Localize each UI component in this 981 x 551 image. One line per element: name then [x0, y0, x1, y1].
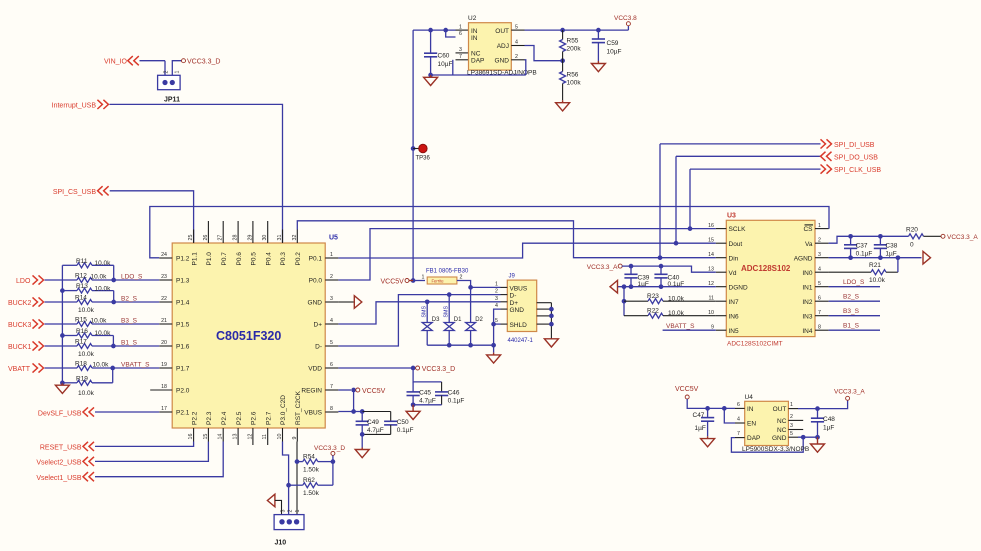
svg-text:31: 31: [277, 235, 283, 241]
svg-text:VCC3.3_D: VCC3.3_D: [422, 366, 455, 373]
wire VCC3.3_A rail to Vd: [622, 266, 716, 272]
U5 pin 20 P1.6: [159, 345, 172, 347]
wire FB1 out to VBUS: [457, 281, 471, 288]
svg-text:10.0k: 10.0k: [869, 277, 886, 284]
svg-text:R14: R14: [75, 295, 87, 302]
svg-text:11: 11: [262, 434, 268, 440]
U5 pin 28 P0.6: [237, 221, 239, 243]
capacitor C45: [412, 382, 414, 392]
svg-text:22: 22: [161, 296, 167, 302]
svg-text:6: 6: [459, 31, 462, 37]
wire AGND row: [829, 257, 922, 259]
net label B3_S at IN3: [829, 315, 880, 317]
svg-text:2: 2: [495, 289, 498, 295]
junction U2 pin6 tap: [443, 28, 448, 33]
svg-text:VCC3.8: VCC3.8: [614, 15, 637, 22]
svg-text:B1_S: B1_S: [843, 323, 860, 330]
svg-text:R17: R17: [75, 339, 87, 346]
wire J9 SHLD pin5: [494, 323, 501, 325]
ground at ladder bus bottom: [60, 380, 65, 385]
U5 pin 2 P0.0: [325, 279, 338, 281]
U5 pin 27 P0.7: [222, 221, 224, 243]
power port VCC5V at REGIN: [356, 388, 360, 392]
net SPI_DO_USB: [676, 155, 821, 157]
svg-text:U2: U2: [468, 15, 477, 22]
power port VCC3.3_A at U4: [846, 396, 850, 400]
U4 pin stubs right: [788, 408, 798, 410]
svg-text:BUCK2: BUCK2: [8, 300, 31, 307]
svg-text:9: 9: [292, 437, 298, 440]
svg-text:SPI_DI_USB: SPI_DI_USB: [834, 142, 875, 149]
junction C59 top: [596, 28, 601, 33]
svg-text:C49: C49: [367, 419, 379, 426]
svg-text:1: 1: [295, 510, 301, 513]
U3 pin 16 SCLK: [716, 228, 727, 230]
svg-text:440247-1: 440247-1: [508, 338, 534, 344]
resistor R23: [624, 300, 648, 302]
svg-text:CS: CS: [803, 226, 813, 233]
U5 pin 29 P0.5: [252, 221, 254, 243]
junction C60 bottom: [428, 73, 433, 78]
wire SPI_CLK vertical: [689, 169, 691, 229]
svg-text:VCC5V: VCC5V: [675, 386, 699, 393]
wire R11 to LDO_S node: [113, 265, 115, 280]
svg-text:15: 15: [708, 237, 714, 243]
svg-text:R62: R62: [303, 477, 315, 484]
svg-text:5: 5: [790, 431, 793, 437]
svg-text:19: 19: [161, 362, 167, 368]
U5 pin 19 P1.7: [159, 367, 172, 369]
svg-text:1: 1: [422, 275, 425, 281]
svg-text:C45: C45: [419, 389, 431, 396]
ground under J9 tabs: [544, 339, 558, 347]
wire VBUS caps bottom rail: [362, 433, 391, 435]
wire VIN_IO to JP11: [140, 60, 166, 62]
svg-text:10: 10: [277, 434, 283, 440]
wire D+ to J9: [338, 302, 500, 324]
svg-text:SHLD: SHLD: [510, 322, 528, 329]
svg-text:3: 3: [495, 296, 498, 302]
svg-text:D+: D+: [510, 300, 519, 307]
wire VDD caps bottom rail: [413, 404, 442, 406]
svg-text:4: 4: [515, 40, 518, 46]
U5 pin 10 P3.0_C2D: [282, 428, 284, 442]
junction C38 bottom: [878, 255, 883, 260]
svg-text:P2.6: P2.6: [251, 411, 258, 425]
svg-text:25: 25: [188, 235, 194, 241]
resistor R17: [45, 345, 78, 347]
wire DAP riser: [452, 60, 454, 75]
svg-text:10.0k: 10.0k: [93, 362, 110, 369]
svg-text:4: 4: [330, 318, 333, 324]
svg-text:D+: D+: [314, 322, 323, 329]
svg-text:0.1µF: 0.1µF: [856, 250, 873, 257]
svg-text:OUT: OUT: [495, 28, 509, 35]
junction REGIN node: [351, 388, 356, 393]
svg-text:IN0: IN0: [802, 270, 813, 277]
junction DAP riser top: [801, 435, 806, 440]
U5 pin 18 P2.0: [150, 389, 172, 391]
svg-text:VBATT: VBATT: [8, 366, 31, 373]
junction D2 bottom: [468, 343, 473, 348]
svg-text:R21: R21: [869, 262, 881, 269]
wire IN5 row: [663, 329, 716, 331]
wire DevSLF_USB to pin17: [95, 411, 159, 413]
junction R23 tap: [622, 299, 627, 304]
U5 pin 17 P2.1: [159, 411, 172, 413]
svg-text:DevSLF_USB: DevSLF_USB: [38, 410, 82, 417]
svg-text:1: 1: [330, 252, 333, 258]
svg-text:1: 1: [495, 281, 498, 287]
svg-text:18: 18: [161, 384, 167, 390]
svg-text:13: 13: [233, 434, 239, 440]
wire VBUS caps top rail: [362, 411, 391, 413]
ground under C45: [412, 405, 414, 412]
test point TP36: [413, 148, 419, 150]
U3 pin 12 DGND: [716, 286, 727, 288]
svg-text:IN2: IN2: [802, 299, 813, 306]
svg-text:VBUS: VBUS: [304, 410, 322, 417]
svg-text:B3_S: B3_S: [843, 308, 860, 315]
wire VCC5V vertical rail: [412, 30, 414, 280]
ground arrow DGND: [610, 280, 618, 293]
U2 pin stubs right: [511, 29, 524, 31]
svg-text:VCC3.3_A: VCC3.3_A: [834, 389, 865, 396]
wire JP11 pin1 riser to VCC3.3_D: [172, 61, 181, 76]
U5 pin 6 VDD: [325, 367, 338, 369]
wire P1.2 to ADC CS net: [150, 207, 829, 258]
svg-text:5: 5: [330, 340, 333, 346]
svg-text:R16: R16: [76, 328, 88, 335]
svg-text:SPI_CS_USB: SPI_CS_USB: [53, 189, 97, 196]
wire diode ground rail: [427, 344, 493, 346]
junction VBUS riser: [351, 409, 356, 414]
svg-text:ADC128S102: ADC128S102: [741, 264, 791, 273]
svg-text:VBUS: VBUS: [510, 285, 528, 292]
svg-text:Din: Din: [729, 255, 739, 262]
svg-text:C37: C37: [856, 242, 868, 249]
wire DGND row: [618, 286, 716, 288]
svg-text:6: 6: [330, 362, 333, 368]
svg-text:2: 2: [288, 510, 294, 513]
svg-text:16: 16: [188, 434, 194, 440]
svg-text:P1.5: P1.5: [176, 322, 190, 329]
U5 pin 4 D+: [325, 323, 338, 325]
U3 pin 14 Din: [716, 257, 727, 259]
svg-text:10.0k: 10.0k: [78, 307, 95, 314]
svg-text:21: 21: [161, 318, 167, 324]
svg-text:2: 2: [790, 414, 793, 420]
svg-text:SMS: SMS: [421, 306, 427, 318]
svg-text:Vselect1_USB: Vselect1_USB: [36, 475, 81, 482]
junction C48 top: [815, 406, 820, 411]
svg-text:5: 5: [818, 281, 821, 287]
capacitor C50: [390, 412, 392, 422]
svg-text:8: 8: [818, 324, 821, 330]
svg-text:1.50k: 1.50k: [303, 467, 320, 474]
regulator U4 box: [745, 401, 789, 445]
wire VDD caps rail: [413, 368, 442, 382]
svg-text:EN: EN: [747, 421, 756, 428]
svg-text:4.7µF: 4.7µF: [367, 427, 384, 434]
svg-text:P0.5: P0.5: [251, 252, 258, 266]
svg-text:3: 3: [818, 252, 821, 258]
U3 pin 15 Dout: [716, 242, 727, 244]
svg-text:P0.3: P0.3: [280, 252, 287, 266]
resistor R13: [62, 290, 77, 292]
capacitor C48: [817, 409, 819, 419]
svg-text:LP5900SDX-3.3/NOPB: LP5900SDX-3.3/NOPB: [742, 446, 809, 453]
svg-text:U5: U5: [329, 235, 338, 242]
svg-text:10: 10: [708, 310, 714, 316]
U5 pin 5 D-: [325, 345, 338, 347]
connector J10: [274, 515, 304, 530]
U5 pin 3 GND: [325, 301, 338, 303]
svg-text:P0.7: P0.7: [221, 252, 228, 266]
capacitor C59: [597, 30, 599, 39]
svg-text:0.1µF: 0.1µF: [397, 427, 414, 434]
wire R19 to VBATT_S node: [112, 368, 114, 383]
svg-text:IN5: IN5: [729, 328, 740, 335]
U5 pin 9 RST_C2CK: [296, 428, 298, 442]
svg-text:10.0k: 10.0k: [91, 318, 108, 325]
resistor R62: [289, 484, 303, 486]
U3 pin 10 IN6: [716, 315, 727, 317]
svg-text:10.0k: 10.0k: [78, 390, 95, 397]
op-amp U2 box: [469, 23, 512, 70]
wire DGND riser to R22/R23: [623, 287, 625, 316]
svg-text:12: 12: [708, 281, 714, 287]
svg-text:J9: J9: [509, 274, 516, 280]
svg-text:NC: NC: [777, 418, 787, 425]
svg-text:VBATT_S: VBATT_S: [666, 323, 695, 330]
U3 pin 6 IN2: [815, 300, 829, 302]
capacitor C39: [630, 266, 632, 274]
svg-text:10µF: 10µF: [438, 61, 453, 68]
svg-text:GND: GND: [510, 307, 525, 314]
resistor R21: [829, 271, 871, 273]
U5 pin 14 P2.4: [222, 428, 224, 442]
net label B2_S at IN2: [829, 300, 880, 302]
resistor R19: [62, 382, 77, 384]
svg-text:6: 6: [818, 295, 821, 301]
svg-text:SPI_DO_USB: SPI_DO_USB: [834, 154, 878, 161]
junction C47 top: [705, 406, 710, 411]
svg-text:P1.3: P1.3: [176, 278, 190, 285]
svg-text:1: 1: [790, 402, 793, 408]
connector J9 box: [507, 280, 536, 331]
svg-text:100k: 100k: [567, 80, 582, 87]
resistor R20: [909, 234, 924, 239]
junction R54 at RST: [295, 459, 300, 464]
svg-text:4: 4: [495, 303, 498, 309]
wire SPI_DO vertical: [675, 156, 677, 243]
svg-text:Vselect2_USB: Vselect2_USB: [36, 460, 81, 467]
U5 pin 13 P2.5: [237, 428, 239, 445]
svg-text:IN: IN: [471, 28, 478, 35]
svg-text:P0.4: P0.4: [265, 252, 272, 266]
svg-text:P2.0: P2.0: [176, 388, 190, 395]
junction C37 top: [848, 234, 853, 239]
diode D1: [448, 295, 450, 322]
wire Vselect2_USB to pin15: [95, 442, 208, 462]
svg-text:10.0k: 10.0k: [95, 285, 112, 292]
wire D- to J9: [338, 295, 500, 346]
svg-text:7: 7: [737, 431, 740, 437]
U5 pin 11 P2.7: [267, 428, 269, 445]
svg-text:13: 13: [708, 266, 714, 272]
svg-text:27: 27: [218, 235, 224, 241]
svg-text:P0.0: P0.0: [309, 278, 323, 285]
adc U3 box: [726, 220, 815, 336]
svg-text:28: 28: [233, 235, 239, 241]
svg-text:P3.0_C2D: P3.0_C2D: [280, 395, 287, 425]
svg-text:SPI_CLK_USB: SPI_CLK_USB: [834, 167, 881, 174]
svg-text:9: 9: [711, 324, 714, 330]
svg-text:7: 7: [330, 384, 333, 390]
wire VBUS row to J9 pin1: [471, 286, 501, 288]
svg-text:3: 3: [330, 296, 333, 302]
svg-text:IN4: IN4: [802, 328, 813, 335]
resistor R15: [45, 323, 78, 325]
svg-text:Va: Va: [805, 241, 813, 248]
capacitor C49: [361, 412, 363, 422]
junction ADJ divider tap: [560, 58, 565, 63]
junction C40 bottom: [659, 284, 664, 289]
ground arrow AGND: [923, 251, 931, 264]
junction C45 bottom: [411, 402, 416, 407]
svg-text:B2_S: B2_S: [843, 294, 860, 301]
wire REGIN to VCC5V: [338, 389, 351, 391]
wire R21 to AGND: [897, 258, 899, 273]
svg-text:VBATT_S: VBATT_S: [121, 361, 150, 368]
svg-text:R13: R13: [76, 283, 88, 290]
svg-text:SMS: SMS: [443, 306, 449, 318]
svg-text:200k: 200k: [567, 46, 582, 53]
svg-text:VCC3.3_D: VCC3.3_D: [187, 59, 220, 66]
svg-text:SCLK: SCLK: [729, 226, 747, 233]
U5 pin 15 P2.3: [207, 428, 209, 442]
U5 pin 12 P2.6: [252, 428, 254, 445]
svg-text:1µF: 1µF: [695, 425, 706, 432]
capacitor C60: [430, 30, 432, 53]
wire J9 GND pin4 down: [494, 309, 501, 353]
svg-text:17: 17: [161, 406, 167, 412]
svg-text:BUCK1: BUCK1: [8, 344, 31, 351]
wire R62 to VCC3.3_D: [332, 462, 334, 486]
resistor R22: [624, 315, 648, 317]
svg-text:2: 2: [460, 275, 463, 281]
svg-text:20: 20: [161, 340, 167, 346]
capacitor C38: [879, 236, 881, 245]
junction VBUS D2 tap: [468, 285, 473, 290]
svg-text:1: 1: [459, 24, 462, 30]
wire J10 pin3 elbow: [275, 500, 282, 519]
wire R16 to B1_S node: [112, 336, 114, 347]
U3 pin 11 IN7: [716, 300, 727, 302]
svg-text:Vd: Vd: [729, 270, 737, 277]
U3 pin 7 IN3: [815, 315, 829, 317]
U5 pin 25 P1.1: [193, 230, 195, 244]
svg-text:LDO: LDO: [16, 278, 31, 285]
junction C60 top: [428, 28, 433, 33]
svg-text:2: 2: [164, 71, 170, 74]
svg-text:REGIN: REGIN: [301, 388, 322, 395]
power port VCC3.3_A right: [941, 234, 945, 238]
net SPI_DI_USB: [660, 143, 821, 145]
svg-text:24: 24: [161, 252, 167, 258]
junction B2_S node: [111, 300, 116, 305]
svg-text:0.1µF: 0.1µF: [448, 398, 465, 405]
resistor R14: [45, 301, 78, 303]
svg-text:R55: R55: [567, 38, 579, 45]
U3 pin 5 IN1: [815, 286, 829, 288]
resistor R54: [297, 461, 303, 463]
svg-text:ADC128S102CIMT: ADC128S102CIMT: [727, 341, 783, 348]
svg-text:IN1: IN1: [802, 284, 813, 291]
svg-text:C59: C59: [607, 40, 619, 47]
junction LDO_S node: [111, 278, 116, 283]
svg-text:3: 3: [790, 423, 793, 429]
U5 pin 26 P1.0: [207, 221, 209, 243]
U5 pin 23 P1.3: [159, 279, 172, 281]
svg-text:R15: R15: [75, 317, 87, 324]
wire VCC5V to FB1: [413, 280, 425, 282]
svg-text:3: 3: [459, 47, 462, 53]
svg-text:R22: R22: [647, 308, 659, 315]
svg-text:IN: IN: [471, 35, 478, 42]
svg-text:2: 2: [330, 274, 333, 280]
svg-text:FB1 0805-FB30: FB1 0805-FB30: [426, 269, 469, 275]
junction SPI_DO at Dout: [674, 241, 679, 246]
svg-text:C48: C48: [823, 416, 835, 423]
svg-text:14: 14: [218, 434, 224, 440]
U3 pin 2 Va: [815, 242, 829, 244]
wire U2 pin6 riser: [446, 30, 456, 37]
wire U2 GND pin elbow: [525, 60, 526, 75]
U5 pin 32 P0.2: [296, 230, 298, 244]
svg-text:B2_S: B2_S: [121, 295, 138, 302]
U3 pin 1 CS: [815, 228, 829, 230]
junction VBATT_S node: [110, 366, 115, 371]
svg-text:DAP: DAP: [471, 58, 484, 65]
svg-text:LDO_S: LDO_S: [121, 273, 143, 280]
ground under C60: [430, 75, 432, 77]
ground arrow U5 GND pin: [338, 301, 353, 303]
junction EN riser: [722, 406, 727, 411]
wire JP11 pin2 riser: [164, 61, 166, 76]
wire ADJ elbow to divider: [525, 46, 563, 61]
svg-text:NC: NC: [777, 427, 787, 434]
U5 pin 21 P1.5: [159, 323, 172, 325]
svg-text:1: 1: [175, 71, 181, 74]
wire OUT to VCC3.3_A: [798, 400, 848, 408]
junction TP36 tap: [411, 146, 416, 151]
svg-text:2: 2: [515, 54, 518, 60]
junction C49 top: [360, 409, 365, 414]
svg-text:4: 4: [737, 417, 740, 423]
wire SPI_CS_USB to U5 pin25: [110, 191, 194, 243]
svg-text:R23: R23: [647, 293, 659, 300]
U5 pin 8 VBUS: [325, 411, 338, 413]
svg-text:P1.2: P1.2: [176, 256, 190, 263]
diode D2: [470, 287, 472, 322]
svg-text:14: 14: [708, 252, 714, 258]
U3 CS overline: [805, 224, 814, 226]
junction C37 bottom: [848, 255, 853, 260]
power port VCC3.3_D at VDD: [416, 366, 420, 370]
junction R21 top: [896, 255, 901, 260]
